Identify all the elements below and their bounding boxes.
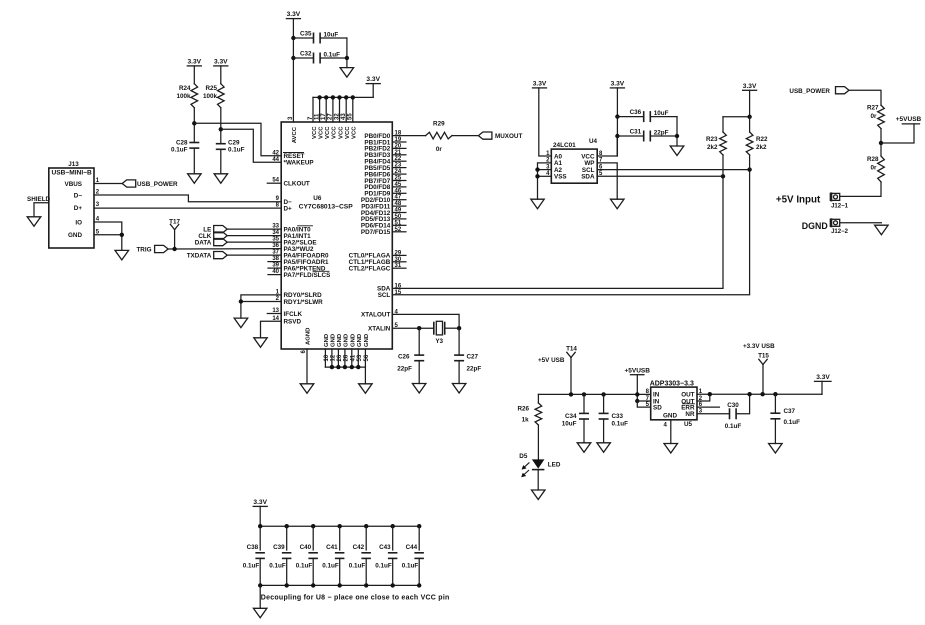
wire USB_POWER to R27 [849, 90, 881, 105]
wire +5V USB rail [538, 393, 650, 395]
svg-text:U4: U4 [589, 138, 598, 145]
wire VCC pin stub 2 [319, 97, 321, 122]
wire U5 OUT2 join [697, 394, 710, 401]
wire GND pin stub 10 [324, 349, 326, 367]
ground for RDY pins [234, 318, 248, 328]
node LE tag [203, 226, 227, 234]
svg-text:0.1uF: 0.1uF [612, 421, 629, 428]
connector J12-2 [830, 219, 848, 235]
svg-text:R22: R22 [756, 136, 768, 143]
capacitor C28 [171, 140, 199, 154]
node GND bar junction x338 [336, 365, 340, 369]
wire C38 bottom lead [259, 558, 261, 585]
svg-text:VBUS: VBUS [65, 181, 83, 188]
svg-text:GND: GND [68, 232, 82, 239]
power 3.3V rail for U4 VCC [610, 81, 624, 88]
wire RESET net to U6 pin 42 [194, 123, 281, 156]
test point T17 [169, 219, 180, 230]
wire stub pin 38 [268, 261, 281, 263]
svg-text:GND: GND [337, 334, 343, 347]
node bottom rail junction C41 [338, 583, 342, 587]
pin 2 U4 A1 label [546, 158, 562, 168]
capacitor C42 [349, 544, 371, 570]
wire C26 to ground [418, 361, 420, 384]
ground for U4 WP [611, 199, 625, 209]
node top rail junction C38 [258, 524, 262, 528]
svg-text:C41: C41 [326, 544, 338, 551]
pin 14 RSVD label [272, 316, 301, 326]
pin 4 U4 VSS label [546, 171, 566, 181]
resistor R22 [746, 132, 768, 155]
node U5 IN7 junction [635, 399, 639, 403]
power 3.3V rail for AVCC [286, 11, 300, 18]
ground for U5 [664, 444, 678, 454]
wire U4 SCL to R22 net [597, 169, 749, 171]
svg-text:C30: C30 [727, 402, 739, 409]
svg-text:24LC01: 24LC01 [553, 142, 576, 149]
ground under C29 [214, 174, 228, 184]
pin 45 PD0/FD8 label [364, 182, 401, 191]
wire U5 OUT1 rail [697, 393, 822, 395]
svg-text:R25: R25 [205, 85, 217, 92]
pin 1 RDY0/*SLRD label [276, 289, 322, 299]
node GND bar junction x344 [343, 365, 347, 369]
wire stub pin 13 IFCLK [267, 313, 281, 315]
wire U4 A2 to ground net [538, 169, 552, 171]
capacitor C44 [402, 544, 424, 570]
wire U4 WP down to ground [597, 163, 617, 199]
wire +5VUSB to U5 IN [636, 375, 638, 401]
svg-text:10uF: 10uF [562, 421, 577, 428]
ground for U4 [531, 199, 544, 209]
svg-text:CTL2/*FLAGC: CTL2/*FLAGC [349, 266, 391, 273]
svg-text:RDY1/*SLWR: RDY1/*SLWR [284, 299, 324, 306]
svg-text:0.1uF: 0.1uF [296, 563, 313, 570]
svg-text:22pF: 22pF [654, 129, 669, 136]
node C33 junction [601, 392, 605, 396]
svg-text:T15: T15 [758, 352, 769, 359]
wire GND bar to ground [364, 367, 366, 384]
wire stub pin 49 [392, 212, 406, 214]
node J13 ground junction [120, 233, 124, 237]
wire C40 top lead [312, 526, 314, 550]
resistor R27 [867, 105, 884, 129]
svg-text:42: 42 [272, 150, 279, 156]
svg-text:10uF: 10uF [324, 31, 339, 38]
pin 16 SDA label [377, 283, 402, 292]
svg-text:GND: GND [663, 412, 677, 419]
capacitor C26 [397, 353, 424, 372]
pin 46 PD1/FD9 label [364, 188, 401, 197]
wire R23 to SDA net [722, 155, 724, 176]
svg-text:U6: U6 [313, 195, 322, 202]
svg-text:XTALOUT: XTALOUT [361, 312, 390, 319]
wire stub pin 45 [392, 186, 406, 188]
pin 48 PD3/FD11 label [361, 201, 402, 210]
svg-text:3.3V: 3.3V [253, 499, 267, 506]
wire GND bus bar [325, 366, 365, 368]
svg-text:DGND: DGND [802, 221, 828, 231]
power 3.3V output label [815, 374, 832, 381]
node bottom rail junction C38 [258, 583, 262, 587]
svg-text:C27: C27 [467, 353, 479, 360]
pin 6 U5 ERR label [681, 402, 703, 412]
svg-text:SD: SD [653, 404, 662, 411]
wire R27 to +5VUSB node [880, 129, 882, 156]
svg-text:3.3V: 3.3V [287, 11, 301, 18]
svg-text:C33: C33 [612, 413, 624, 420]
wire R24 to C28 [193, 108, 195, 142]
wire stub pin 31 [392, 267, 406, 269]
wire C44 top lead [418, 526, 420, 550]
wire C29 to ground [220, 149, 222, 174]
svg-text:VCC: VCC [345, 126, 351, 139]
node top rail junction C39 [285, 524, 289, 528]
wire C39 bottom lead [286, 558, 288, 585]
node VCC bar junction 6 [351, 95, 355, 99]
wire IO pin 4 down to GND [94, 222, 122, 250]
wire VCC pin stub 7 [352, 97, 354, 122]
wire J12-2 to ground [840, 222, 882, 224]
node top rail junction C43 [391, 524, 395, 528]
pin 13 IFCLK label [272, 308, 302, 318]
svg-text:ADP3303−3.3: ADP3303−3.3 [650, 380, 694, 387]
svg-text:U5: U5 [684, 421, 693, 428]
GND pin numbers (rotated) [324, 354, 370, 361]
wire T14 stem [570, 358, 572, 395]
pin 30 CTL1/*FLAGB label [349, 257, 402, 266]
node GND bar junction x358 [356, 365, 360, 369]
resistor R28 [867, 156, 884, 182]
node RESET junction [192, 121, 196, 125]
wire stub pin 39 [268, 267, 281, 269]
power 3.3V rail decoupling [253, 499, 267, 506]
svg-text:C37: C37 [784, 408, 796, 415]
wire C26 top lead [418, 328, 420, 355]
wire stub pin 54 CLKOUT [267, 182, 281, 184]
wire VCC bar [313, 96, 373, 98]
node +5VUSB junction [879, 141, 883, 145]
wire stub pin 19 [392, 141, 406, 143]
svg-text:VCC: VCC [312, 126, 318, 139]
node C32 tap [291, 56, 295, 60]
pin 19 PB1/FD1 label [364, 137, 401, 146]
wire GND pin stub 26 [337, 349, 339, 367]
VCC pin labels (rotated) [312, 126, 358, 139]
pin 8 U4 VCC label [581, 151, 603, 161]
svg-text:100k: 100k [176, 93, 191, 100]
svg-text:22pF: 22pF [467, 365, 482, 372]
svg-text:GND: GND [344, 334, 350, 347]
svg-text:GND: GND [364, 334, 370, 347]
node C36 tap [615, 114, 619, 118]
wire stub pin 30 [392, 261, 406, 263]
pin 8 U5 IN label [646, 389, 660, 399]
pin 31 CTL2/*FLAGC label [349, 263, 402, 272]
wire AGND to ground [306, 349, 308, 384]
svg-text:PA7/*FLD/SLCS: PA7/*FLD/SLCS [284, 272, 331, 279]
wire RSVD pin 14 to ground [261, 321, 282, 338]
wire bar to R22 [749, 117, 751, 132]
ground for AGND [300, 384, 314, 394]
svg-text:R29: R29 [433, 120, 445, 127]
wire stub pin 50 [392, 218, 406, 220]
ground decoupling [253, 608, 267, 618]
wire C32 left lead [293, 57, 313, 59]
pin 51 PD6/FD14 label [361, 220, 402, 229]
node WAKEUP junction [219, 127, 223, 131]
svg-text:LED: LED [548, 462, 561, 469]
svg-text:0.1uF: 0.1uF [375, 563, 392, 570]
svg-text:IFCLK: IFCLK [284, 311, 303, 318]
ground DGND [875, 225, 889, 235]
pin 2 J13 D- label [74, 190, 100, 200]
svg-text:VCC: VCC [352, 126, 358, 139]
wire OUT rail up to 3.3V [821, 381, 823, 394]
pin 15 SCL label [378, 290, 402, 299]
test point T14 [566, 345, 577, 357]
node T14 junction [569, 392, 573, 396]
wire stub pin 21 [392, 154, 406, 156]
wire C27 top lead [458, 328, 460, 355]
test point T15 [758, 352, 769, 364]
pin 4 J13 IO label [75, 217, 99, 227]
wire R22 to SCL net [749, 155, 751, 170]
wire U5 SD lead [637, 401, 650, 407]
connector J13 USB-MINI-B body [49, 161, 94, 248]
wire TRIG to U6 pin 36 [168, 248, 281, 250]
node top rail junction C41 [338, 524, 342, 528]
pin 8 D+ label [276, 203, 292, 213]
svg-text:22pF: 22pF [397, 365, 412, 372]
wire rail to R26 [537, 394, 539, 403]
wire TXDATA to U6 pin 37 [227, 254, 281, 256]
wire 3.3V to pullup bar [749, 90, 751, 117]
pin 47 PD2/FD10 label [361, 195, 402, 204]
node C37 junction [773, 392, 777, 396]
node top rail junction C44 [417, 524, 421, 528]
wire R28 to J12-1 [840, 182, 881, 196]
svg-text:3.3V: 3.3V [188, 59, 202, 66]
ground for C36 C31 [670, 146, 684, 156]
wire 3.3V down to VCC bar [372, 84, 374, 98]
svg-text:IO: IO [75, 219, 82, 226]
wire C39 top lead [286, 526, 288, 550]
pin 5 U4 SDA label [581, 171, 603, 181]
node bottom rail junction C43 [391, 583, 395, 587]
capacitor C35 [300, 30, 338, 43]
wire C31 left lead [617, 135, 643, 137]
wire RDY1 pin 2 [241, 302, 281, 319]
wire T15 stem [762, 365, 764, 395]
pin 2 U5 OUT label [681, 396, 703, 406]
svg-text:USB_POWER: USB_POWER [789, 88, 830, 95]
capacitor C27 [454, 353, 481, 372]
node TRIG tag [136, 245, 168, 253]
svg-text:J12−2: J12−2 [831, 229, 849, 235]
pin 44 *WAKEUP label [272, 157, 313, 167]
pin 23 PB5/FD5 label [364, 163, 401, 172]
svg-text:SHIELD: SHIELD [27, 196, 51, 203]
wire C35 right lead [320, 37, 347, 39]
svg-text:USB−MINI−B: USB−MINI−B [52, 169, 93, 176]
svg-text:0.1uF: 0.1uF [725, 423, 742, 430]
svg-text:2k2: 2k2 [756, 144, 767, 151]
resistor R23 [706, 132, 726, 155]
svg-text:+5VUSB: +5VUSB [896, 116, 922, 123]
svg-text:R23: R23 [706, 136, 718, 143]
svg-text:11: 11 [314, 113, 320, 120]
svg-text:C43: C43 [379, 544, 391, 551]
node pullup bar junction [747, 115, 751, 119]
wire stub pin 48 [392, 205, 406, 207]
node C31 return junction [675, 134, 679, 138]
pin 50 PD5/FD13 label [361, 214, 402, 223]
power 3.3V rail for R25 [214, 59, 228, 66]
wire stub pin 47 [392, 199, 406, 201]
svg-text:SCL: SCL [378, 292, 391, 299]
svg-text:CLKOUT: CLKOUT [284, 181, 310, 188]
ground for J13 [115, 250, 129, 260]
wire stub pin 22 [392, 160, 406, 162]
svg-text:0.1uF: 0.1uF [322, 563, 339, 570]
svg-text:10uF: 10uF [654, 110, 669, 117]
svg-text:DATA: DATA [195, 239, 212, 246]
pin 24 PB6/FD6 label [364, 169, 401, 178]
op-amp U6 CY7C68013-CSP body [281, 122, 392, 349]
node U5 IN8 junction [635, 392, 639, 396]
pin 5 XTALIN label [368, 323, 398, 332]
pin 4 XTALOUT label [361, 309, 398, 318]
power 3.3V rail for VCC pins [366, 76, 380, 83]
pin 54 CLKOUT label [272, 178, 310, 188]
pin 18 PB0/FD0 label [364, 131, 401, 140]
capacitor C32 [300, 50, 340, 63]
wire U6 pin 18 to R29 [392, 135, 425, 137]
svg-text:2k2: 2k2 [707, 144, 718, 151]
node bottom rail junction C44 [417, 583, 421, 587]
wire T17 stem [174, 230, 176, 249]
wire C36 right lead [651, 116, 677, 118]
svg-text:C35: C35 [300, 30, 312, 37]
node XTALIN C26 junction [417, 326, 421, 330]
svg-text:R24: R24 [179, 85, 191, 92]
wire D- from J13 to U6 pin 9 [94, 195, 281, 202]
svg-text:0r: 0r [871, 165, 878, 172]
resistor R25 [203, 84, 224, 108]
power 3.3V rail for pullups [743, 83, 757, 90]
wire U5 IN7 lead [637, 400, 650, 402]
node CLK tag [198, 232, 227, 240]
svg-text:PD7/FD15: PD7/FD15 [361, 229, 391, 236]
pin 3 U4 A2 label [546, 164, 562, 174]
svg-text:55: 55 [348, 113, 354, 120]
svg-text:NR: NR [685, 411, 695, 418]
wire C33 top lead [603, 394, 605, 413]
wire GND pin stub 12 [331, 349, 333, 367]
node VCC bar junction 5 [344, 95, 348, 99]
pin 1 J13 VBUS label [65, 178, 100, 188]
node +5VUSB label [896, 116, 922, 124]
svg-text:Decoupling for U8 − place: Decoupling for U8 − place one close to e… [261, 595, 450, 602]
wire C31 right lead [651, 135, 677, 137]
wire 3.3V into decoupling rail [259, 506, 261, 550]
wire U4 A1 to ground net [538, 163, 552, 199]
wire stub pin 25 [392, 180, 406, 182]
connector J12-1 [830, 193, 848, 209]
node SDA R23 junction [721, 174, 725, 178]
wire C36 return down [676, 117, 678, 146]
wire stub pin 24 [392, 173, 406, 175]
ground for RSVD [254, 338, 267, 348]
wire C28 to ground [193, 148, 195, 174]
node MUXOUT tag [478, 132, 522, 140]
node GND bar junction x331 [330, 365, 334, 369]
pin 5 U5 SD label [646, 402, 663, 412]
svg-text:R27: R27 [867, 105, 879, 112]
svg-text:0.1uF: 0.1uF [402, 563, 419, 570]
svg-text:TXDATA: TXDATA [187, 252, 212, 259]
svg-text:T14: T14 [566, 345, 577, 352]
wire C41 bottom lead [339, 558, 341, 585]
node OUT join [708, 392, 712, 396]
svg-text:USB_POWER: USB_POWER [137, 181, 178, 188]
pin 3 J13 D+ label [74, 202, 100, 212]
node SCL R22 junction [747, 167, 751, 171]
wire SCL net U6 pin 15 to R22 [392, 170, 749, 295]
wire VCC pin stub 1 [312, 97, 314, 122]
wire SDA net U6 pin 16 to R23 [392, 176, 723, 288]
ground under C28 [188, 174, 202, 184]
capacitor C36 [630, 109, 669, 122]
svg-text:J12−1: J12−1 [831, 203, 849, 209]
wire C43 bottom lead [392, 558, 394, 585]
svg-text:0r: 0r [871, 113, 878, 120]
svg-text:17: 17 [321, 113, 327, 120]
wire C30 to OUT rail [736, 394, 749, 414]
wire GND pin stub 28 [344, 349, 346, 367]
power 3.3V rail for R24 [187, 59, 201, 66]
svg-text:R28: R28 [867, 156, 879, 163]
pin 5 J13 GND label [68, 229, 100, 239]
wire 3.3V to A0 [539, 88, 552, 156]
node bottom rail junction C42 [364, 583, 368, 587]
svg-text:VCC: VCC [325, 126, 331, 139]
svg-text:0.1uF: 0.1uF [269, 563, 286, 570]
pin 6 U4 SCL label [582, 164, 603, 174]
wire cap return to ground [346, 38, 348, 68]
wire GND pin 5 of J13 [94, 234, 122, 236]
wire U4 VCC up to 3.3V node [597, 136, 617, 156]
wire stub pin 29 [392, 254, 406, 256]
pin 34 PA1/INT1 label [272, 230, 311, 240]
crystal Y3 [434, 321, 445, 345]
svg-text:D5: D5 [519, 453, 528, 460]
node RDY junction [239, 299, 243, 303]
wire decoupling top rail [260, 525, 419, 527]
wire CLK to U6 pin 34 [227, 235, 281, 237]
svg-text:J13: J13 [68, 161, 79, 168]
node GND bar junction x351 [350, 365, 354, 369]
svg-text:C40: C40 [300, 544, 312, 551]
wire GND pin stub 41 [351, 349, 353, 367]
pin 40 PA7/*FLD/ label [272, 269, 330, 279]
wire 3.3V to R24 [193, 66, 195, 84]
svg-text:VCC: VCC [318, 126, 324, 139]
svg-text:CY7C68013−CSP: CY7C68013−CSP [299, 203, 354, 210]
power 3.3V rail for U4 A0 [533, 81, 547, 88]
node TXDATA tag [187, 252, 228, 260]
